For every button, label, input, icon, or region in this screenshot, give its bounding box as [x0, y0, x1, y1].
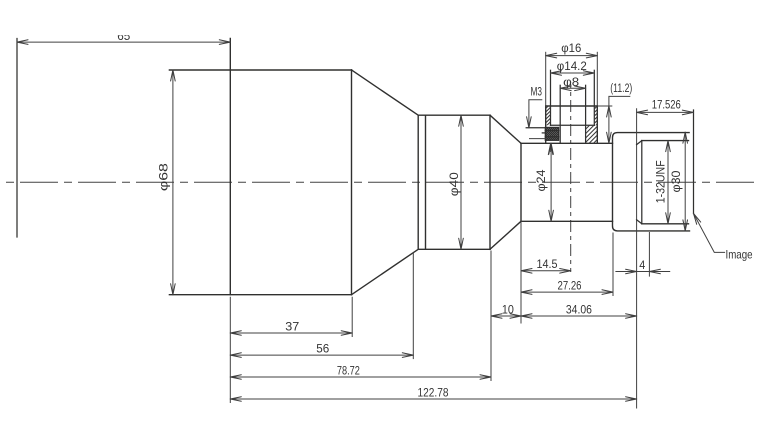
dim 37 line — [230, 332, 352, 334]
svg-text:4: 4 — [639, 258, 645, 272]
dim (11.2) leader — [609, 96, 630, 143]
dim phi40 arrows — [459, 115, 464, 249]
dim 78.72 arrows — [230, 375, 491, 380]
boss right outer wall — [596, 106, 598, 143]
phi40 section top edge — [418, 114, 490, 116]
dim 27.26 line — [521, 291, 613, 293]
section hatch: boss right wall — [572, 104, 621, 128]
phi8 hole right line + extension — [585, 85, 587, 143]
barrel face extension line below — [520, 221, 522, 323]
C-mount thread crest top line — [642, 140, 689, 142]
svg-text:37: 37 — [285, 319, 299, 333]
cone taper top — [352, 70, 419, 115]
dim phi30 line — [684, 132, 686, 231]
ring groove line 2 — [425, 115, 427, 249]
dim 37 extension line — [351, 297, 353, 336]
cone taper bottom — [352, 249, 419, 294]
rear taper bottom — [490, 221, 521, 249]
centerline: optical axis — [4, 181, 757, 183]
dim 56 arrows — [230, 353, 413, 358]
phi14.2 bore left line + extension — [550, 70, 552, 125]
label Image leader with arrow — [694, 214, 725, 253]
label M3 leader — [529, 100, 542, 128]
phi40 section bottom edge — [418, 248, 490, 250]
section hatch: boss left wall — [523, 104, 576, 128]
front reference plane line — [16, 39, 18, 238]
svg-text:(11.2): (11.2) — [610, 81, 632, 95]
phi24 barrel bottom edge — [521, 220, 613, 222]
screw bottom faint line — [530, 138, 546, 140]
boss top edge — [546, 105, 598, 107]
image plane line / mount rear face — [693, 110, 695, 214]
boss left outer wall — [545, 106, 547, 143]
dim 65 text (top-clipped) — [110, 24, 138, 43]
phi24 barrel left face — [520, 143, 522, 221]
dim phi16 arrows — [546, 53, 598, 58]
svg-text:φ14.2: φ14.2 — [557, 59, 587, 73]
svg-text:1-32UNF: 1-32UNF — [654, 160, 668, 203]
dim 1-32UNF line — [667, 141, 669, 224]
thread undercut right edge — [641, 141, 643, 224]
dim 14.5 arrows — [521, 269, 571, 274]
rear taper top — [490, 115, 521, 143]
dim 34.06 arrows — [521, 314, 637, 319]
pointer arrowhead under screw — [548, 144, 553, 155]
dim phi8 arrows — [560, 86, 585, 91]
dim 122.78 arrows — [230, 397, 636, 402]
svg-text:M3: M3 — [531, 85, 543, 99]
svg-text:122.78: 122.78 — [418, 385, 449, 399]
dim 14.5 line — [521, 270, 571, 272]
dim 65 arrows — [17, 40, 230, 45]
dim 10 arrows — [491, 314, 521, 319]
undercut bottom chamfer — [637, 220, 642, 224]
svg-text:56: 56 — [316, 342, 329, 356]
dim phi68 arrows — [171, 70, 176, 295]
screw slot mid line tick — [542, 132, 545, 134]
dim phi14.2 line — [551, 72, 595, 74]
flange face line / thread undercut left edge (long extension) — [636, 109, 638, 408]
front cylinder right face — [351, 70, 353, 295]
mount left face extension line — [612, 233, 614, 296]
dim 17.526 line — [637, 111, 694, 113]
dim 4 right extension line — [648, 233, 650, 277]
svg-text:φ24: φ24 — [534, 169, 548, 191]
phi40 section right face — [489, 115, 491, 249]
dim phi68 line — [172, 70, 174, 295]
svg-text:φ30: φ30 — [669, 170, 683, 192]
dim phi30 arrows — [683, 132, 688, 231]
dim phi24 arrows — [549, 143, 554, 221]
front cylinder top edge (with phi68 extension) — [169, 69, 351, 71]
front cylinder left face (and extension up to 65-dim) — [229, 39, 231, 295]
bore bottom line — [551, 124, 595, 126]
dim 27.26 arrows — [521, 290, 613, 295]
dim 17.526 arrows — [637, 110, 694, 115]
boss top edge extension (for 11.2 dim) — [597, 105, 612, 107]
svg-text:34.06: 34.06 — [566, 302, 592, 316]
phi16 right extension line — [596, 52, 598, 106]
dim 4 arrows — [626, 269, 661, 274]
dim 4 line — [616, 271, 670, 273]
phi8 hole left line + extension — [559, 85, 561, 143]
phi24 barrel top edge — [521, 142, 613, 144]
dim 37 arrows — [230, 331, 352, 336]
svg-text:78.72: 78.72 — [337, 363, 360, 377]
svg-text:φ40: φ40 — [447, 172, 461, 196]
dim phi24 line — [550, 143, 552, 221]
phi14.2 bore right line + extension — [593, 70, 595, 125]
dim 56 extension line — [412, 253, 414, 359]
svg-text:φ8: φ8 — [563, 75, 579, 89]
front cylinder bottom edge (with phi68 extension) — [169, 294, 351, 296]
dim 34.06 line — [521, 315, 637, 317]
dim 10 line — [491, 315, 521, 317]
dim 78.72 line — [230, 376, 491, 378]
dim phi8 line — [560, 87, 585, 89]
section hatch: boss right base block — [564, 123, 622, 146]
svg-text:14.5: 14.5 — [537, 257, 558, 271]
dim 56 line — [230, 354, 413, 356]
mount phi30 outline with rounded left corners — [613, 133, 690, 231]
C-mount thread crest bottom line — [642, 223, 689, 225]
dim 122.78 line — [230, 398, 636, 400]
label M3 arrow — [527, 117, 532, 128]
svg-text:10: 10 — [502, 302, 514, 316]
dim phi16 line — [546, 55, 598, 57]
svg-text:17.526: 17.526 — [652, 98, 681, 112]
centerline: set-screw boss axis — [570, 84, 572, 272]
dim 65 line — [17, 41, 230, 43]
ring groove line 1 — [417, 115, 419, 249]
dim (11.2) arrows — [607, 106, 612, 143]
M3 set screw hatch — [527, 125, 577, 143]
undercut top chamfer — [637, 141, 642, 145]
svg-text:φ68: φ68 — [156, 163, 170, 191]
front face extension line below — [229, 297, 231, 402]
phi16 left extension line — [545, 52, 547, 106]
svg-text:Image: Image — [726, 248, 753, 262]
dim phi40 line — [460, 115, 462, 249]
screw head top line extending left — [526, 127, 545, 129]
dim phi14.2 arrows — [551, 71, 595, 76]
svg-text:φ16: φ16 — [561, 41, 581, 55]
M3 set screw (sectioned) — [545, 127, 558, 140]
svg-text:27.26: 27.26 — [558, 278, 582, 292]
dim 1-32UNF arrows — [666, 141, 671, 224]
phi40 right face extension line — [490, 251, 492, 381]
